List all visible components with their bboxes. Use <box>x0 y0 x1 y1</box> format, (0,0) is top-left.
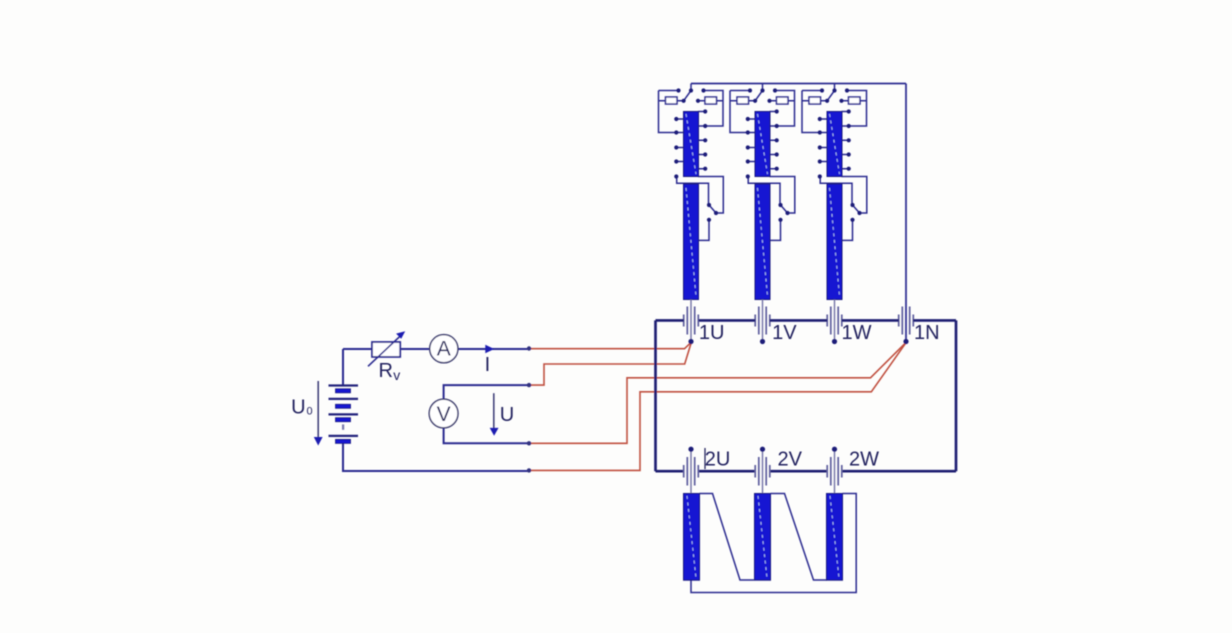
svg-text:v: v <box>393 367 400 383</box>
svg-text:V: V <box>437 403 451 426</box>
svg-text:1V: 1V <box>772 322 797 344</box>
svg-text:0: 0 <box>307 405 313 417</box>
svg-text:U: U <box>291 397 305 419</box>
svg-text:2W: 2W <box>849 449 879 471</box>
svg-text:1W: 1W <box>842 322 872 344</box>
svg-text:A: A <box>437 337 451 360</box>
svg-text:2V: 2V <box>778 449 803 471</box>
svg-text:I: I <box>485 354 491 376</box>
svg-text:U: U <box>500 404 514 426</box>
svg-text:R: R <box>379 360 393 382</box>
svg-text:1U: 1U <box>699 322 725 344</box>
svg-text:2U: 2U <box>705 449 731 471</box>
svg-text:1N: 1N <box>914 322 940 344</box>
